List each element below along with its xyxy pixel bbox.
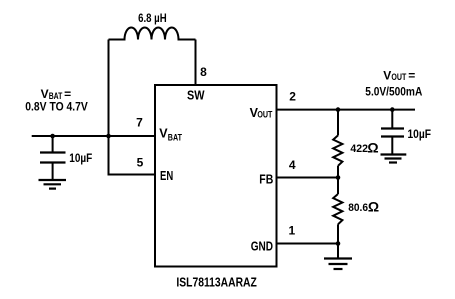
ground (left, below C1) bbox=[39, 163, 67, 189]
svg-text:SW: SW bbox=[187, 89, 205, 103]
svg-text:422: 422 bbox=[350, 143, 368, 155]
junction: C1 tap on VBAT rail bbox=[50, 134, 55, 139]
junction: inductor / EN tap on VBAT rail bbox=[106, 134, 111, 139]
svg-text:GND: GND bbox=[251, 240, 273, 254]
svg-text:Ω: Ω bbox=[367, 140, 378, 156]
capacitor C2 10µF bbox=[381, 110, 404, 137]
wire: VBAT input rail to pin 7 bbox=[32, 135, 155, 137]
svg-text:7: 7 bbox=[136, 116, 143, 130]
svg-text:10µF: 10µF bbox=[408, 127, 432, 141]
wire: SW leg from inductor down to pin 8 bbox=[195, 40, 197, 86]
svg-text:V: V bbox=[383, 68, 391, 82]
resistor R2 80.6Ω bbox=[333, 178, 342, 244]
svg-text:80.6: 80.6 bbox=[348, 202, 368, 214]
resistor R1 422Ω bbox=[333, 110, 342, 178]
svg-text:2: 2 bbox=[289, 90, 296, 104]
svg-text:6.8 µH: 6.8 µH bbox=[138, 11, 167, 25]
svg-text:BAT: BAT bbox=[168, 132, 183, 142]
wire: VOUT rail from pin 2 bbox=[277, 109, 416, 111]
svg-text:EN: EN bbox=[160, 169, 173, 183]
svg-text:OUT: OUT bbox=[257, 109, 272, 119]
svg-text:OUT: OUT bbox=[391, 72, 406, 83]
inductor L1 6.8µH bbox=[109, 28, 196, 40]
junction: divider tap bbox=[336, 175, 341, 180]
svg-text:4: 4 bbox=[289, 158, 296, 172]
svg-text:Ω: Ω bbox=[368, 199, 379, 215]
svg-text:10µF: 10µF bbox=[69, 151, 92, 165]
ground (right, below C2) bbox=[381, 137, 407, 163]
svg-text:0.8V TO 4.7V: 0.8V TO 4.7V bbox=[25, 100, 88, 114]
capacitor C1 10µF bbox=[40, 136, 66, 163]
ground (bottom, below R2) bbox=[324, 244, 352, 270]
svg-text:ISL78113AARAZ: ISL78113AARAZ bbox=[176, 276, 257, 290]
wire: inductor left leg (down to VBAT rail) bbox=[108, 40, 110, 137]
svg-text:1: 1 bbox=[289, 223, 296, 237]
wire: FB from pin 4 to divider tap bbox=[277, 177, 339, 179]
svg-text:5: 5 bbox=[137, 156, 144, 170]
svg-text:8: 8 bbox=[200, 65, 207, 79]
svg-text:FB: FB bbox=[259, 173, 273, 187]
junction: C2 tap on VOUT rail bbox=[390, 107, 395, 112]
IC U1 ISL78113AARAZ bbox=[155, 85, 277, 267]
svg-text:=: = bbox=[408, 68, 415, 82]
svg-text:5.0V/500mA: 5.0V/500mA bbox=[365, 84, 422, 98]
wire: GND from pin 1 to bottom ground bbox=[277, 243, 339, 245]
junction: ground tap bbox=[336, 241, 341, 246]
junction: R1 tap on VOUT rail bbox=[336, 107, 341, 112]
wire: EN branch from VBAT rail to pin 5 bbox=[109, 136, 156, 175]
